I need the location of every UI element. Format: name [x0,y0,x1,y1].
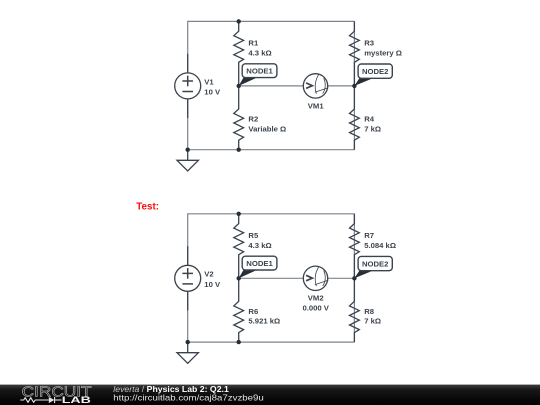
svg-text:VM1: VM1 [308,101,325,110]
svg-text:4.3 kΩ: 4.3 kΩ [248,49,271,58]
svg-text:5.084 kΩ: 5.084 kΩ [364,241,396,250]
junction [237,19,241,23]
CircuitLab logo CIRCUIT text [22,384,92,400]
node NODE1 flag [239,256,277,278]
svg-text:V1: V1 [204,77,214,86]
svg-text:R3: R3 [364,39,374,48]
svg-text:mystery Ω: mystery Ω [364,49,402,58]
resistor R8 [350,278,382,342]
footer bar [0,385,540,405]
ground [177,342,198,363]
wire right bottom [353,86,355,150]
junction [186,340,190,344]
svg-text:NODE2: NODE2 [362,67,389,76]
svg-text:R5: R5 [248,231,259,240]
CircuitLab logo resistor-diode glyph [20,397,61,403]
footer title [113,384,229,394]
wire middle right [328,85,355,87]
footer URL [113,394,264,403]
voltage source V1 [175,54,221,118]
node NODE2 flag [354,256,392,278]
resistor R6 [234,278,280,342]
svg-text:R8: R8 [364,307,375,316]
svg-text:10 V: 10 V [204,88,221,97]
svg-text:http://circuitlab.com/caj8a7zv: http://circuitlab.com/caj8a7zvzbe9u [113,394,264,403]
svg-text:R1: R1 [248,39,259,48]
svg-text:R7: R7 [364,231,374,240]
node NODE2 flag [354,64,392,86]
svg-text:4.3 kΩ: 4.3 kΩ [248,241,271,250]
voltmeter VM1 [303,74,328,111]
svg-text:VM2: VM2 [308,294,324,303]
node NODE1 flag [239,64,277,86]
svg-text:7 kΩ: 7 kΩ [364,124,381,133]
svg-text:NODE1: NODE1 [246,67,273,76]
junction [237,276,241,280]
resistor R5 [234,214,272,278]
wire middle right [328,277,355,279]
wire middle left [239,277,304,279]
svg-text:10 V: 10 V [204,280,221,289]
svg-text:Variable Ω: Variable Ω [248,124,286,133]
junction [237,84,241,88]
junction [352,276,356,280]
resistor R1 [234,21,272,86]
resistor R2 [234,86,286,150]
resistor R7 [350,214,397,278]
junction [237,212,241,216]
wire middle left [239,85,304,87]
resistor R4 [350,86,382,150]
wire bottom rail [188,149,355,151]
junction [352,84,356,88]
wire bottom rail [188,341,355,343]
ground [177,150,198,171]
svg-text:R6: R6 [248,307,258,316]
wire top rail [188,21,355,149]
wire right bottom [353,278,355,342]
junction [186,148,190,152]
resistor R3 [350,21,402,86]
svg-text:NODE1: NODE1 [246,259,273,268]
svg-text:7 kΩ: 7 kΩ [364,317,381,326]
voltage source V2 [175,246,221,310]
wire top rail [188,214,355,342]
svg-text:5.921 kΩ: 5.921 kΩ [248,317,280,326]
svg-text:0.000 V: 0.000 V [302,304,329,313]
junction [237,340,241,344]
Test label [136,202,159,213]
svg-text:NODE2: NODE2 [362,259,389,268]
voltmeter VM2 [302,266,329,312]
svg-text:leverta / Physics Lab 2: Q2.1: leverta / Physics Lab 2: Q2.1 [113,384,229,394]
svg-text:V2: V2 [204,270,213,279]
wire right top [353,21,355,86]
wire right top [353,214,355,278]
svg-text:LAB: LAB [62,394,91,405]
junction [237,148,241,152]
svg-text:R4: R4 [364,115,375,124]
svg-text:Test:: Test: [136,202,159,213]
CircuitLab logo LAB text [62,394,91,405]
svg-text:R2: R2 [248,115,258,124]
